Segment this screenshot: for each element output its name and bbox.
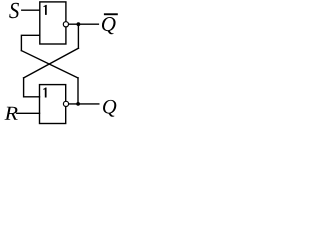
wire U1 output to Q-bar label [69, 23, 99, 25]
NOR gate U2 (bottom) body [40, 85, 66, 124]
label 1 of U2 [43, 88, 46, 98]
wire diagonal node Q to U1 input [21, 51, 78, 78]
wire vertical to U2 upper input [24, 78, 40, 97]
label S [9, 3, 19, 18]
wire S input [22, 9, 40, 11]
wire R input [17, 112, 40, 114]
label R [4, 107, 17, 120]
inversion bubble U1 [63, 22, 68, 27]
wire diagonal node Q-bar to U2 input [24, 48, 79, 78]
label 1 of U1 [44, 5, 47, 15]
wire U2 output to Q label [69, 103, 99, 105]
overline of Q-bar [104, 13, 118, 15]
wire node Q-bar vertical [77, 24, 79, 48]
junction node Q [76, 102, 80, 106]
inversion bubble U2 [63, 101, 68, 106]
label Q-bar [102, 17, 116, 34]
wire U1 lower input from node Q [21, 35, 39, 50]
junction node Q-bar [77, 22, 81, 26]
label Q [103, 100, 116, 117]
NOR gate U1 (top) body [40, 2, 66, 44]
wire vertical down to node Q junction [77, 78, 79, 104]
